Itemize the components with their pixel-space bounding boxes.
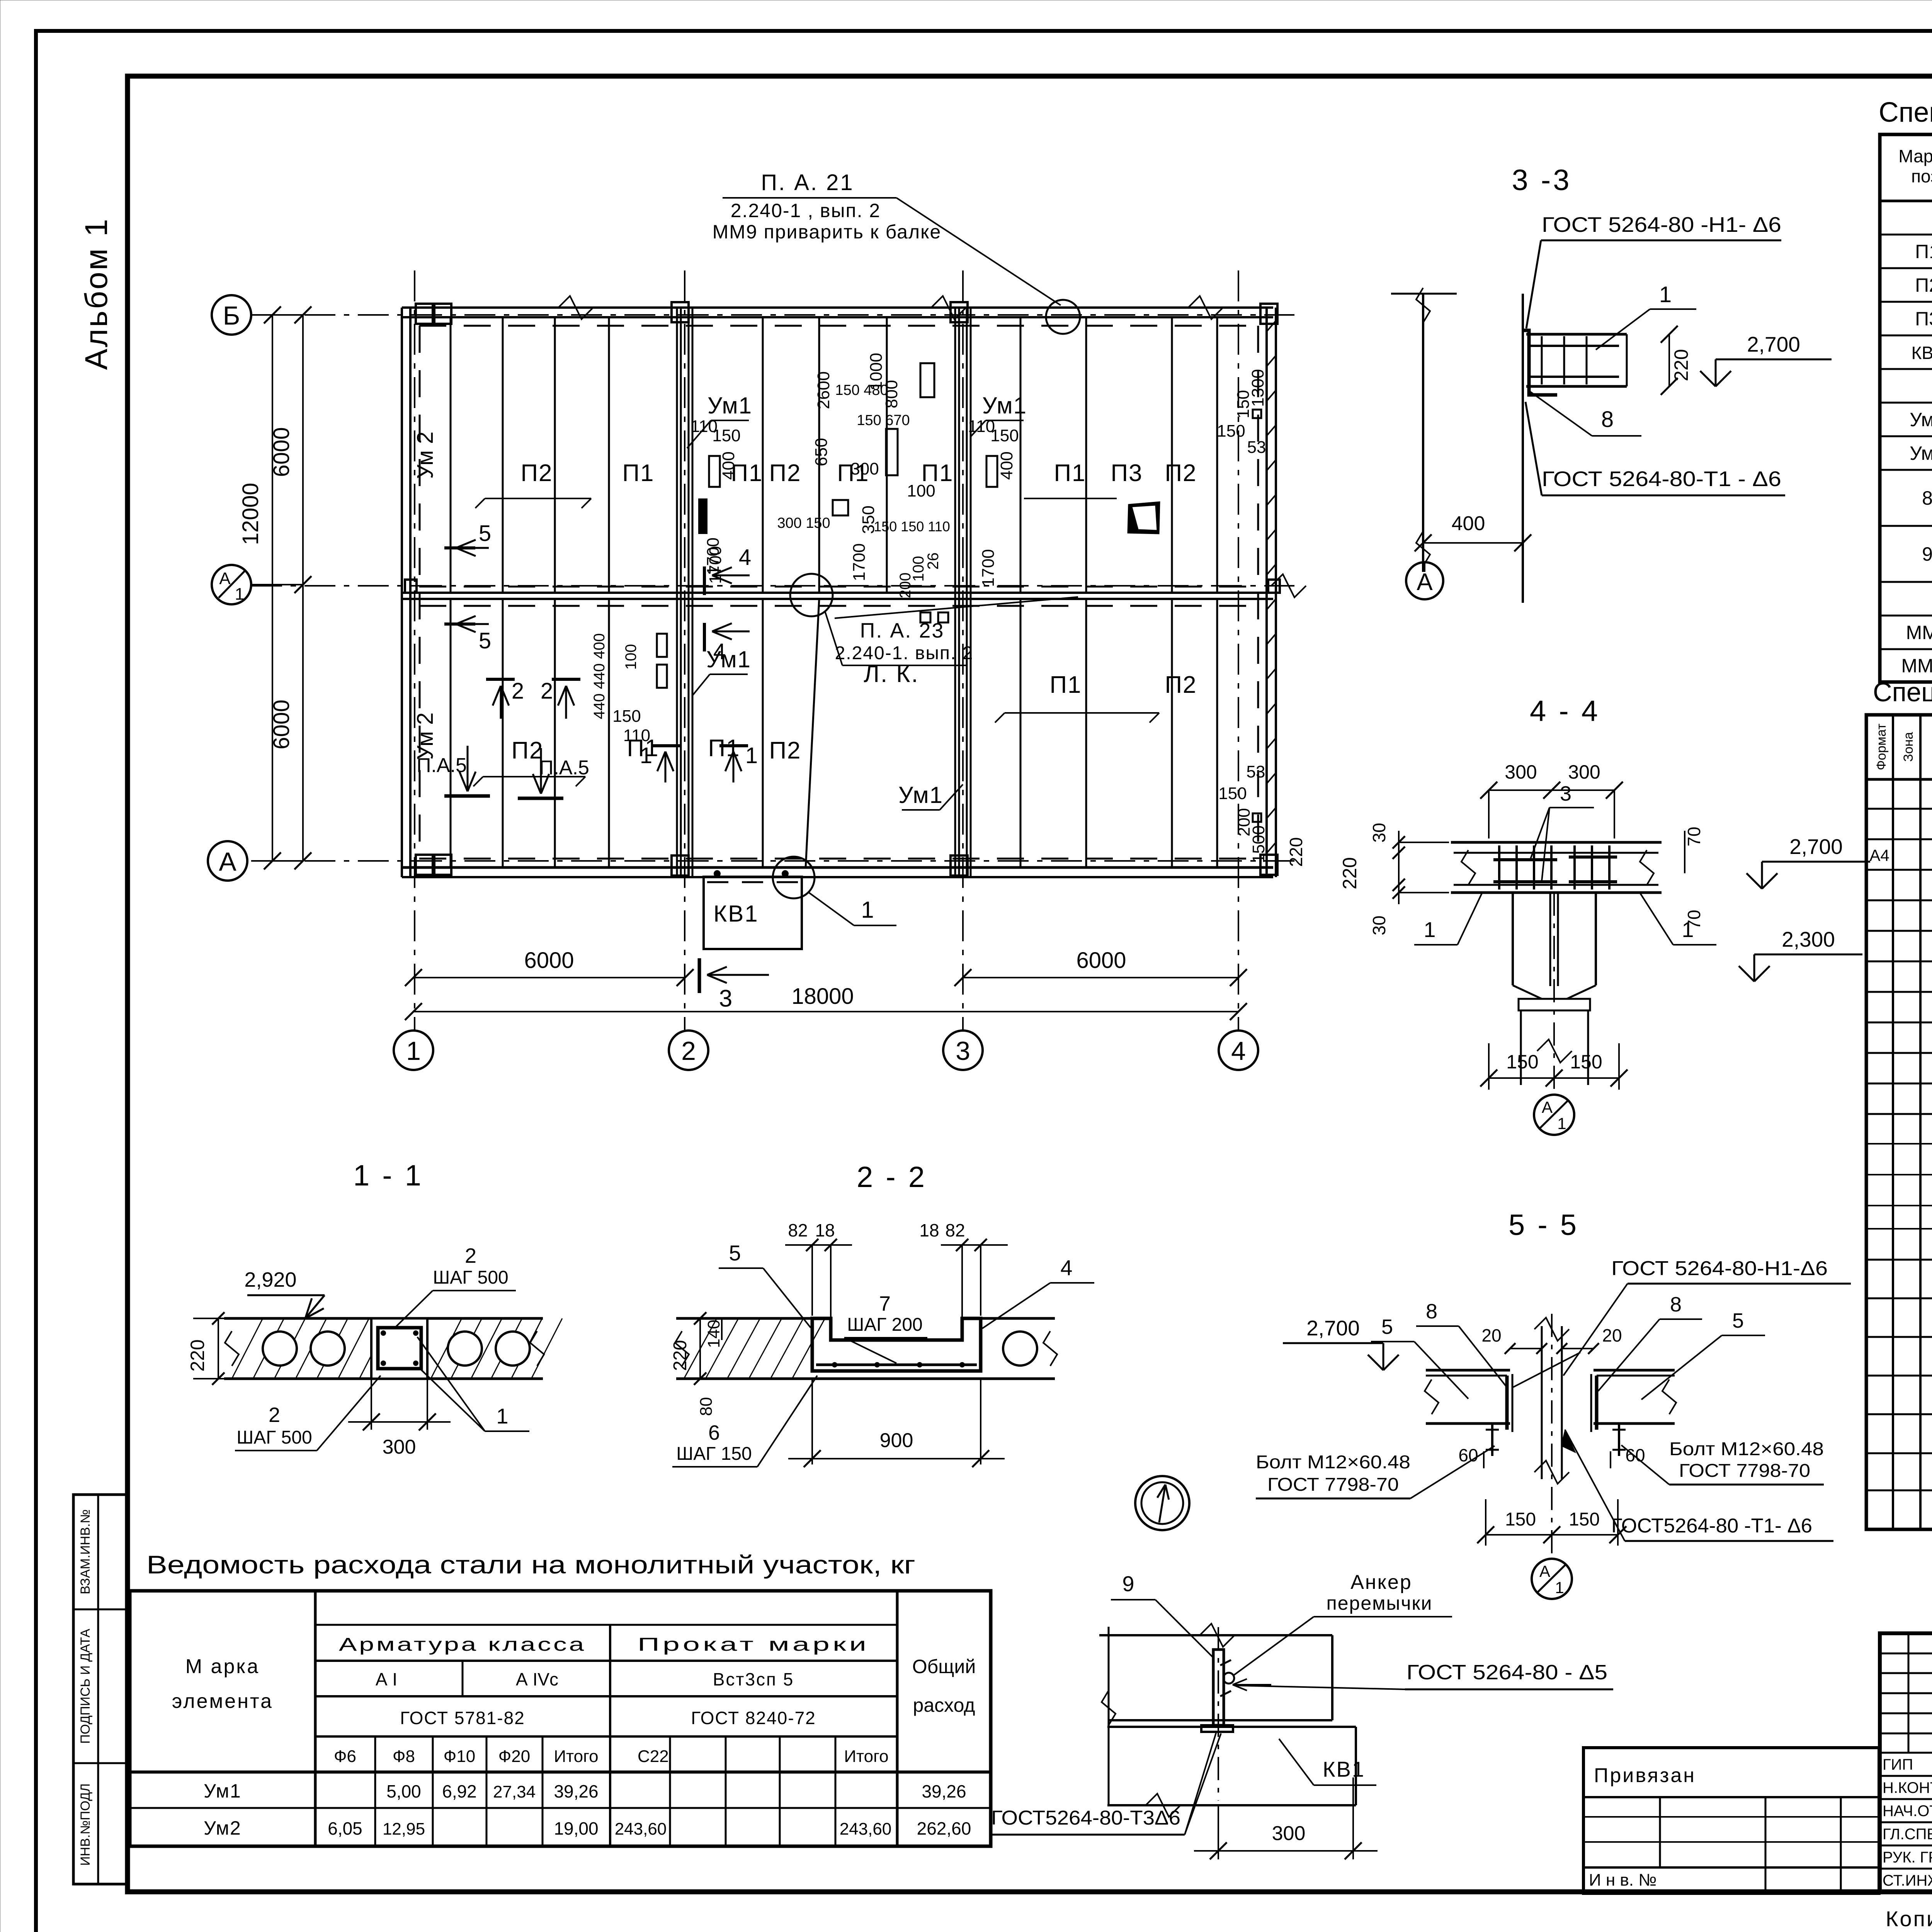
svg-text:Ф20: Ф20 <box>498 1747 530 1766</box>
slab mark lines <box>485 498 591 499</box>
svg-text:7: 7 <box>879 1292 891 1315</box>
svg-text:1: 1 <box>1682 917 1694 942</box>
svg-text:4: 4 <box>1231 1036 1246 1066</box>
monolithic strip Um1 grid2 <box>676 308 678 877</box>
svg-text:2,700: 2,700 <box>1789 835 1843 859</box>
svg-text:1: 1 <box>745 743 758 768</box>
svg-text:Ум1: Ум1 <box>982 393 1027 418</box>
dim 300 (anchor) <box>1218 1805 1219 1859</box>
grid axis 2 <box>684 270 685 1030</box>
svg-text:30: 30 <box>1369 915 1389 935</box>
anchor base plate <box>1201 1725 1233 1732</box>
svg-text:ШАГ 150: ШАГ 150 <box>676 1444 752 1464</box>
monolithic strip Um1 grid3 <box>954 308 956 877</box>
svg-text:ГОСТ5264-80-Т3Δ6: ГОСТ5264-80-Т3Δ6 <box>991 1807 1180 1829</box>
svg-text:Л. К.: Л. К. <box>864 661 919 687</box>
grid circle A/1 <box>212 565 251 604</box>
grid circle 1 <box>394 1031 433 1070</box>
svg-text:3: 3 <box>719 985 732 1012</box>
svg-text:1: 1 <box>1659 282 1672 307</box>
svg-text:П2: П2 <box>769 737 801 764</box>
svg-text:220: 220 <box>1670 349 1692 381</box>
svg-text:Ум1: Ум1 <box>898 782 943 808</box>
svg-text:20: 20 <box>1602 1325 1622 1345</box>
svg-text:1300: 1300 <box>1248 369 1267 407</box>
svg-text:П2: П2 <box>520 460 553 486</box>
svg-text:6000: 6000 <box>1076 948 1126 973</box>
top dims 2-2 <box>785 1244 852 1246</box>
core circle right 2-2 <box>1003 1332 1037 1366</box>
left dims (4-4) <box>1398 831 1400 904</box>
svg-text:А: А <box>1539 1562 1550 1580</box>
svg-text:3 -3: 3 -3 <box>1512 164 1572 197</box>
right dims 70 70 (4-4) <box>1684 831 1685 873</box>
svg-text:300: 300 <box>1505 761 1537 783</box>
svg-text:ГЛ.СПЕЦ.: ГЛ.СПЕЦ. <box>1883 1826 1932 1843</box>
svg-text:Анкер: Анкер <box>1350 1571 1412 1594</box>
svg-text:1: 1 <box>640 743 652 768</box>
section mark 5 lower <box>444 622 475 626</box>
section 4-4 top dims 300 300 <box>1489 789 1614 791</box>
section 4-4 rebar mesh <box>1493 858 1557 861</box>
svg-text:КВ1: КВ1 <box>1911 343 1932 363</box>
svg-text:8: 8 <box>1670 1293 1682 1316</box>
svg-text:ГИП: ГИП <box>1883 1756 1913 1773</box>
dim 900 (2-2) <box>811 1379 813 1464</box>
grid axis 1 <box>414 270 415 1030</box>
left narrow col extra lines in tall row <box>1866 1143 1932 1145</box>
svg-text:НАЧ.ОТД.: НАЧ.ОТД. <box>1883 1803 1932 1820</box>
elevation 2700 (4-4) <box>1762 873 1777 889</box>
section 1-1 slab band <box>224 1317 543 1320</box>
svg-text:2,700: 2,700 <box>1747 332 1800 356</box>
svg-text:Ум1: Ум1 <box>204 1780 241 1802</box>
svg-text:П1: П1 <box>1915 241 1932 262</box>
center wall lines 5-5 <box>1541 1326 1543 1479</box>
svg-text:53: 53 <box>1247 762 1265 781</box>
wire top dashed <box>419 325 1264 327</box>
svg-text:КВ1: КВ1 <box>713 901 759 927</box>
svg-text:1 - 1: 1 - 1 <box>353 1159 423 1192</box>
svg-text:Спецификация элементов монолит: Спецификация элементов монолитных участк… <box>1873 677 1932 707</box>
svg-text:150 670: 150 670 <box>857 412 910 429</box>
slab joint lines bottom half <box>450 599 452 867</box>
svg-text:3: 3 <box>1560 782 1571 805</box>
svg-text:Ум2: Ум2 <box>1910 442 1932 464</box>
grid circle 3 <box>943 1031 983 1070</box>
svg-text:900: 900 <box>880 1429 913 1452</box>
svg-text:1: 1 <box>1555 1578 1564 1597</box>
svg-text:1500: 1500 <box>1249 825 1268 863</box>
svg-text:60: 60 <box>1458 1445 1478 1465</box>
svg-text:КВ1: КВ1 <box>1323 1757 1365 1781</box>
elevation 2700 (5-5) <box>1383 1355 1399 1370</box>
svg-text:150: 150 <box>1569 1509 1600 1530</box>
spec table 1 grid <box>1880 134 1932 682</box>
svg-text:6000: 6000 <box>524 948 574 973</box>
svg-text:300 150: 300 150 <box>777 515 830 531</box>
svg-text:перемычки: перемычки <box>1327 1592 1433 1614</box>
axis B line <box>251 314 1294 316</box>
svg-text:39,26: 39,26 <box>554 1781 598 1801</box>
plan right edge <box>1265 308 1268 877</box>
svg-text:4: 4 <box>713 639 726 664</box>
black opening mark near P3 <box>1128 502 1160 534</box>
svg-text:П1: П1 <box>622 460 654 486</box>
svg-text:82: 82 <box>788 1220 808 1240</box>
floor plan top beam <box>402 306 1273 309</box>
svg-text:12000: 12000 <box>238 483 263 545</box>
svg-text:100: 100 <box>907 481 935 500</box>
svg-text:150: 150 <box>1506 1051 1538 1073</box>
dim 220 (3-3) <box>1668 334 1670 386</box>
svg-text:1: 1 <box>1423 917 1435 942</box>
svg-text:12,95: 12,95 <box>383 1820 425 1838</box>
svg-text:ГОСТ 8240-72: ГОСТ 8240-72 <box>691 1708 816 1728</box>
title block outline <box>1880 1633 1932 1892</box>
svg-text:Альбом 1: Альбом 1 <box>79 218 114 370</box>
section 3-3 wall <box>1422 294 1424 572</box>
slab joint lines top half <box>450 317 452 593</box>
anchor weld circle <box>1223 1673 1234 1684</box>
svg-text:ИНВ.№ПОДЛ: ИНВ.№ПОДЛ <box>78 1783 93 1866</box>
svg-text:150: 150 <box>1505 1509 1536 1530</box>
section mark 3 bottom <box>698 958 701 993</box>
svg-text:Н.КОНТР.: Н.КОНТР. <box>1883 1779 1932 1796</box>
filled opening mark near grid2 <box>698 498 707 534</box>
svg-text:П2: П2 <box>511 737 543 764</box>
svg-text:ГОСТ5264-80 -Т1- Δ6: ГОСТ5264-80 -Т1- Δ6 <box>1611 1515 1812 1537</box>
svg-text:Марка,: Марка, <box>1898 146 1932 166</box>
svg-text:ГОСТ 5264-80-Т1 - Δ6: ГОСТ 5264-80-Т1 - Δ6 <box>1542 467 1781 491</box>
svg-text:220: 220 <box>1286 837 1306 867</box>
svg-text:А: А <box>1417 569 1433 595</box>
svg-text:Ф8: Ф8 <box>393 1747 415 1766</box>
svg-text:5: 5 <box>1732 1309 1744 1332</box>
left angle 5-5 <box>1505 1376 1509 1430</box>
dim 300 (1-1) <box>371 1379 372 1430</box>
svg-text:2,700: 2,700 <box>1306 1316 1360 1340</box>
svg-text:Ум2: Ум2 <box>204 1817 241 1839</box>
north arrow symbol <box>1135 1476 1189 1530</box>
steel table grid <box>130 1591 991 1846</box>
svg-text:150 150 110: 150 150 110 <box>874 519 950 534</box>
svg-text:Б: Б <box>223 301 240 330</box>
svg-text:53: 53 <box>1247 438 1266 457</box>
svg-text:243,60: 243,60 <box>615 1820 667 1838</box>
svg-text:2 - 2: 2 - 2 <box>857 1161 927 1194</box>
anchor detail lower slab KV1 <box>1107 1726 1356 1728</box>
svg-text:П. А. 23: П. А. 23 <box>860 619 945 642</box>
svg-text:19,00: 19,00 <box>554 1818 598 1838</box>
bottom dimension 18000 <box>413 1011 1238 1012</box>
section 4-4 column base <box>1519 999 1590 1010</box>
svg-text:П2: П2 <box>1915 274 1932 296</box>
grid circle 4 <box>1219 1031 1258 1070</box>
svg-text:4: 4 <box>739 545 751 570</box>
section mark 1 arrows <box>651 744 680 747</box>
hatch left 2-2 <box>684 1318 717 1379</box>
svg-text:П3: П3 <box>1915 308 1932 330</box>
hatch left part 1-1 <box>232 1318 263 1379</box>
svg-text:27,34: 27,34 <box>493 1782 536 1801</box>
svg-text:ММ9 приварить к балке: ММ9 приварить к балке <box>713 221 942 243</box>
svg-text:ВЗАМ.ИНВ.№: ВЗАМ.ИНВ.№ <box>78 1509 93 1594</box>
svg-text:РУК. ГР.: РУК. ГР. <box>1883 1849 1932 1866</box>
bottom dimension 6000 right <box>963 977 1238 978</box>
svg-text:П3: П3 <box>1111 460 1143 486</box>
svg-text:18: 18 <box>919 1220 939 1240</box>
svg-text:300: 300 <box>850 459 879 478</box>
floor plan mid beam A/1 <box>402 592 1273 594</box>
svg-text:1: 1 <box>496 1404 508 1428</box>
svg-text:150: 150 <box>1217 422 1245 440</box>
grid circle B <box>212 295 251 335</box>
axis circle A (3-3) <box>1424 561 1425 572</box>
svg-text:1: 1 <box>861 897 874 923</box>
elevation 2300 (4-4) <box>1754 966 1770 981</box>
left dims (2-2) <box>699 1318 701 1379</box>
svg-text:26: 26 <box>925 553 942 570</box>
svg-text:2: 2 <box>512 679 524 704</box>
svg-text:300: 300 <box>1568 761 1600 783</box>
svg-text:650: 650 <box>812 438 831 466</box>
left slab 5-5 <box>1426 1369 1510 1372</box>
svg-text:82: 82 <box>945 1220 965 1240</box>
svg-text:ШАГ 500: ШАГ 500 <box>236 1427 312 1448</box>
svg-text:2: 2 <box>681 1036 696 1066</box>
svg-text:А I: А I <box>376 1669 397 1689</box>
svg-text:150 480: 150 480 <box>835 382 888 398</box>
right bolt 5-5 <box>1618 1423 1620 1456</box>
svg-text:220: 220 <box>187 1339 208 1371</box>
axis A line <box>251 860 1294 862</box>
hatch right part 1-1 <box>431 1318 462 1379</box>
svg-text:4 - 4: 4 - 4 <box>1530 695 1600 728</box>
hollow cores 1-1 <box>263 1332 297 1366</box>
KV1 canopy box <box>704 877 802 949</box>
section mark 2 arrows <box>486 678 515 681</box>
right edge hatching <box>1267 321 1276 332</box>
svg-text:2: 2 <box>541 679 553 704</box>
bottom dimension 6000 left <box>413 977 685 978</box>
grid circle 2 <box>669 1031 708 1070</box>
svg-text:поз.: поз. <box>1911 166 1932 186</box>
svg-text:5,00: 5,00 <box>386 1781 421 1801</box>
svg-text:Болт М12×60.48: Болт М12×60.48 <box>1256 1452 1410 1473</box>
elevation 2700 (3-3) <box>1716 371 1731 386</box>
svg-text:39,26: 39,26 <box>922 1781 966 1801</box>
svg-text:Ум1: Ум1 <box>707 393 752 418</box>
svg-text:1: 1 <box>235 585 244 604</box>
svg-text:2: 2 <box>465 1244 476 1267</box>
svg-text:243,60: 243,60 <box>840 1820 892 1838</box>
svg-text:П. А. 21: П. А. 21 <box>761 170 854 195</box>
svg-text:П1: П1 <box>1049 672 1082 698</box>
svg-text:А: А <box>219 569 231 588</box>
svg-text:300: 300 <box>1272 1822 1306 1845</box>
svg-text:СТ.ИНЖ.: СТ.ИНЖ. <box>1883 1872 1932 1889</box>
svg-text:300: 300 <box>383 1436 416 1458</box>
right slab 5-5 <box>1594 1369 1675 1372</box>
plan left edge <box>401 308 403 877</box>
svg-text:ГОСТ 7798-70: ГОСТ 7798-70 <box>1679 1461 1810 1481</box>
svg-text:Спецификация к схеме расположе: Спецификация к схеме расположения элемен… <box>1879 97 1932 128</box>
svg-text:Ф6: Ф6 <box>334 1747 356 1766</box>
svg-text:Вст3сп 5: Вст3сп 5 <box>713 1669 794 1689</box>
svg-text:440 440 400: 440 440 400 <box>591 633 608 719</box>
bottom dims 150 150 (4-4) <box>1489 1077 1619 1079</box>
svg-text:Копировал Завьялова: Копировал Завьялова <box>1886 1906 1932 1931</box>
svg-text:Зона: Зона <box>1901 732 1916 762</box>
svg-text:6,92: 6,92 <box>442 1781 477 1801</box>
spec table 2 grid <box>1866 715 1932 1529</box>
svg-text:П.А.5: П.А.5 <box>539 757 589 779</box>
svg-text:150: 150 <box>712 426 740 445</box>
svg-text:П2: П2 <box>1165 672 1197 698</box>
dim 150 150 (5-5) <box>1486 1534 1618 1536</box>
section mark 4 upper <box>703 566 706 595</box>
svg-text:Болт М12×60.48: Болт М12×60.48 <box>1669 1439 1824 1459</box>
svg-text:А4: А4 <box>1869 846 1889 864</box>
svg-text:70: 70 <box>1684 827 1704 846</box>
svg-text:20: 20 <box>1481 1325 1501 1345</box>
svg-text:расход: расход <box>913 1694 975 1716</box>
floor plan bottom beam <box>402 866 1273 869</box>
marker circle on top beam <box>1046 300 1080 334</box>
section 2-2 slab band <box>676 1317 814 1320</box>
svg-text:2,920: 2,920 <box>244 1268 296 1291</box>
svg-text:1700: 1700 <box>850 543 869 581</box>
section 3-3 corner angle <box>1523 330 1557 395</box>
svg-text:3: 3 <box>956 1036 970 1066</box>
channel section 2-2 <box>812 1318 981 1371</box>
svg-text:Ум1: Ум1 <box>1910 409 1932 430</box>
svg-text:6,05: 6,05 <box>328 1818 362 1838</box>
svg-text:ГОСТ 5264-80-Н1-Δ6: ГОСТ 5264-80-Н1-Δ6 <box>1611 1257 1828 1280</box>
column symbols <box>416 304 433 324</box>
svg-text:5 - 5: 5 - 5 <box>1509 1209 1579 1242</box>
svg-text:элемента: элемента <box>172 1690 273 1713</box>
svg-text:30: 30 <box>1369 823 1389 842</box>
anchor axis line <box>1218 1627 1219 1801</box>
svg-text:9: 9 <box>1122 1571 1134 1596</box>
svg-text:А: А <box>219 847 236 876</box>
svg-text:18000: 18000 <box>791 984 854 1009</box>
svg-text:100: 100 <box>622 644 639 670</box>
svg-text:Общий: Общий <box>912 1656 976 1677</box>
left bolt 5-5 <box>1491 1423 1493 1456</box>
svg-text:П2: П2 <box>769 460 801 486</box>
svg-text:5: 5 <box>1381 1315 1393 1338</box>
svg-text:18: 18 <box>815 1220 835 1240</box>
dim 220 (1-1) <box>218 1318 219 1379</box>
svg-text:400: 400 <box>1452 512 1485 535</box>
axis A/1 line <box>251 585 1294 587</box>
anchor plate <box>1213 1650 1224 1725</box>
svg-text:150: 150 <box>990 426 1019 445</box>
svg-text:8: 8 <box>1922 487 1932 509</box>
left side strip table <box>73 1495 128 1884</box>
svg-text:262,60: 262,60 <box>917 1818 971 1838</box>
svg-text:Ведомость расхода стали на мон: Ведомость расхода стали на монолитный уч… <box>146 1550 915 1579</box>
svg-text:М арка: М арка <box>185 1655 260 1678</box>
svg-text:2,300: 2,300 <box>1782 927 1835 951</box>
svg-text:ММ9: ММ9 <box>1906 622 1932 643</box>
svg-text:Прокат марки: Прокат марки <box>638 1634 869 1655</box>
svg-text:2600: 2600 <box>814 371 833 409</box>
center axis 5-5 <box>1551 1314 1553 1553</box>
svg-text:220: 220 <box>1339 857 1361 889</box>
svg-text:6: 6 <box>708 1421 720 1444</box>
svg-text:4: 4 <box>1060 1255 1072 1280</box>
break marks on beams <box>558 296 593 319</box>
svg-text:6000: 6000 <box>269 699 294 749</box>
svg-text:Привязан: Привязан <box>1594 1764 1696 1787</box>
svg-text:150: 150 <box>1218 784 1247 803</box>
svg-text:5: 5 <box>479 628 491 653</box>
svg-text:2.240-1 , вып. 2: 2.240-1 , вып. 2 <box>731 200 881 221</box>
svg-text:П1: П1 <box>1054 460 1086 486</box>
svg-text:1: 1 <box>406 1036 421 1066</box>
svg-text:ШАГ 200: ШАГ 200 <box>847 1315 922 1335</box>
detail circle 1 at bottom edge <box>773 857 815 898</box>
svg-text:150: 150 <box>612 707 641 726</box>
section 3-3 slab <box>1526 333 1627 336</box>
svg-text:Арматура класса: Арматура класса <box>339 1634 586 1655</box>
svg-text:400: 400 <box>997 451 1016 480</box>
svg-text:2: 2 <box>269 1403 280 1427</box>
svg-text:ММ11: ММ11 <box>1901 655 1932 677</box>
svg-text:5: 5 <box>729 1241 741 1265</box>
wire left dashed <box>419 326 421 859</box>
axis circle A/1 (5-5) <box>1532 1559 1572 1599</box>
stair opening edge <box>806 599 819 867</box>
right angle 5-5 <box>1595 1376 1599 1430</box>
monolithic strip 1-1 <box>371 1318 427 1379</box>
section 4-4 slab <box>1451 841 1662 844</box>
svg-text:1: 1 <box>1557 1114 1566 1133</box>
section mark 5 upper <box>444 546 475 549</box>
svg-text:8: 8 <box>1426 1300 1437 1323</box>
svg-text:ПОДПИСЬ И ДАТА: ПОДПИСЬ И ДАТА <box>78 1629 93 1744</box>
svg-text:ГОСТ 5781-82: ГОСТ 5781-82 <box>400 1708 525 1728</box>
svg-text:С22: С22 <box>638 1747 669 1766</box>
privyazan table <box>1583 1748 1879 1893</box>
svg-text:9: 9 <box>1922 543 1932 565</box>
svg-text:Итого: Итого <box>554 1747 598 1766</box>
svg-text:Ф10: Ф10 <box>444 1747 475 1766</box>
svg-text:ШАГ 500: ШАГ 500 <box>433 1267 508 1288</box>
svg-text:220: 220 <box>670 1340 690 1371</box>
detail circle at mid beam <box>790 574 833 616</box>
svg-text:5: 5 <box>479 521 491 546</box>
svg-text:Итого: Итого <box>844 1747 888 1766</box>
svg-text:Ум 2: Ум 2 <box>413 432 438 479</box>
svg-text:140: 140 <box>704 1320 723 1348</box>
svg-text:400: 400 <box>719 451 738 480</box>
svg-text:ГОСТ 5264-80 -Н1- Δ6: ГОСТ 5264-80 -Н1- Δ6 <box>1542 213 1781 236</box>
svg-text:А: А <box>1542 1098 1553 1116</box>
svg-text:150: 150 <box>1570 1051 1602 1073</box>
left dimension line 12000 <box>272 315 273 861</box>
wire right dashed <box>1257 326 1259 859</box>
svg-text:1700: 1700 <box>704 537 723 575</box>
grid axis 3 <box>962 270 964 1030</box>
section mark 4 lower <box>703 623 706 651</box>
svg-text:6000: 6000 <box>269 427 294 477</box>
svg-text:8: 8 <box>1601 407 1614 432</box>
